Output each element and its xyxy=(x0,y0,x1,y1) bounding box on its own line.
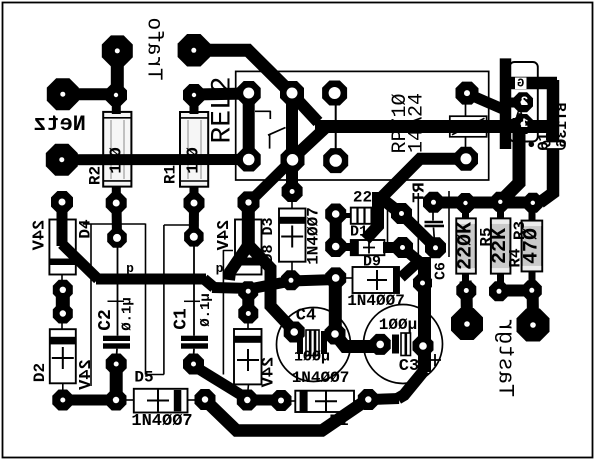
relay contact silk 1 xyxy=(255,111,270,119)
C4 stripe a xyxy=(309,330,312,356)
wire R4-R3 bottom link xyxy=(499,285,532,297)
wire R2 pad link xyxy=(112,203,123,238)
svg-text:Netz: Netz xyxy=(33,112,86,137)
wire D8 fork stem xyxy=(242,203,255,249)
svg-text:C3: C3 xyxy=(399,357,419,376)
svg-text:D1Ø: D1Ø xyxy=(350,224,377,241)
jumper silk horiz B xyxy=(164,224,193,226)
R1 cap line top xyxy=(180,117,208,119)
pad D8 top node xyxy=(238,191,260,213)
wire RT net xyxy=(381,159,467,213)
pad B D10 node xyxy=(392,237,413,258)
via C5 b xyxy=(325,236,346,257)
pad bus C4 corner xyxy=(281,270,301,290)
C1 bottom lead xyxy=(193,349,196,357)
pad D5 right xyxy=(195,389,216,410)
svg-text:14A24: 14A24 xyxy=(406,93,429,153)
D9 plus mark xyxy=(367,270,387,290)
wire via pair D7 xyxy=(242,291,254,314)
wire via pair C2 xyxy=(110,364,123,400)
wire relay pin3 to coil diag b xyxy=(292,125,329,160)
relay pin4a lead xyxy=(465,104,467,116)
C4 stripe b xyxy=(314,330,317,356)
wire pad B junction diag xyxy=(403,248,421,263)
wire D10 right to pad B xyxy=(383,242,401,253)
svg-text:R1: R1 xyxy=(162,165,180,184)
C3 stripe xyxy=(404,333,407,356)
svg-text:1N4ØØ7: 1N4ØØ7 xyxy=(305,207,323,265)
svg-text:Trafo: Trafo xyxy=(142,17,165,80)
diode D5 body xyxy=(134,389,188,413)
resistor R4 22K body cap top xyxy=(492,219,510,224)
pad Tast 2 xyxy=(517,309,550,342)
wire C4 short link xyxy=(335,334,379,347)
R1 cap line bottom xyxy=(180,180,208,182)
pad R1 bottom xyxy=(184,193,205,214)
wire bus lower xyxy=(212,280,336,289)
R4 top lead xyxy=(497,205,504,218)
pad R1 top xyxy=(183,84,205,106)
pad R4 top rail xyxy=(490,192,510,212)
pad C4 minus xyxy=(325,324,346,345)
jumper silk bottom U xyxy=(146,374,164,376)
D1 left lead xyxy=(288,400,295,402)
D5 plus mark xyxy=(147,390,169,412)
pad relay pin3a xyxy=(322,81,347,106)
pad R3 top rail xyxy=(523,193,543,213)
relay coil box xyxy=(450,116,487,137)
C2 bottom lead xyxy=(116,349,119,357)
pad A RT node xyxy=(391,203,412,224)
pad Trafo 1 xyxy=(102,35,133,66)
pad zener bus xyxy=(51,191,73,213)
D1 right lead xyxy=(354,400,361,402)
via D4 b xyxy=(53,304,73,324)
via D4 a xyxy=(53,280,73,300)
R2 cap line bottom xyxy=(103,180,131,182)
R3 top lead xyxy=(529,206,536,221)
pad D7 top xyxy=(238,304,258,324)
pad C4 plus xyxy=(284,322,305,343)
capacitor C4 outline circle xyxy=(277,308,351,382)
wire zener bus diag xyxy=(62,244,98,279)
pad C2 bottom xyxy=(106,354,127,375)
svg-text:1N4ØØ7: 1N4ØØ7 xyxy=(292,369,350,387)
wire R1 pad link xyxy=(189,203,199,237)
wire top rail xyxy=(425,197,540,209)
pad relay pin2b xyxy=(281,148,305,172)
pad C3 minus xyxy=(413,336,434,357)
R3 bottom lead xyxy=(529,271,536,285)
svg-text:R3: R3 xyxy=(511,221,529,240)
wire relay pin 1 vertical xyxy=(243,93,255,160)
resistor R5 220K body cap bottom xyxy=(457,268,475,273)
wire Netz pad 1 east xyxy=(63,88,116,100)
D2 top lead xyxy=(61,322,63,330)
jumper silk vertical C xyxy=(163,225,165,375)
silk tick C2 xyxy=(108,300,125,302)
wire bar C down xyxy=(540,80,553,203)
svg-text:22: 22 xyxy=(353,189,372,207)
C5 left stub xyxy=(342,213,351,218)
wire relay pin2 to coil diag a xyxy=(292,94,318,122)
D8 cathode band xyxy=(235,258,262,266)
wire bar A vertical xyxy=(500,58,512,149)
svg-text:R4: R4 xyxy=(507,248,525,268)
C5 right stub xyxy=(371,213,380,218)
R5 top lead xyxy=(462,206,469,218)
wire relay to D8 node diag xyxy=(249,160,292,203)
svg-text:REL2: REL2 xyxy=(207,76,238,143)
pad relay pin4a xyxy=(456,82,479,105)
wire D5 bottom route xyxy=(206,401,366,431)
D2 cathode band xyxy=(50,337,76,345)
svg-text:Q1: Q1 xyxy=(536,132,553,150)
pad D1 right xyxy=(358,389,379,410)
pad relay pin1a xyxy=(237,81,261,105)
pad D2 bottom gnd xyxy=(52,390,73,411)
wire bar A jog xyxy=(502,118,519,200)
relay coil diagonal xyxy=(452,118,485,135)
resistor R5 220K body cap top xyxy=(457,219,475,224)
R2 cap line top xyxy=(103,117,131,119)
capacitor C2 plate bottom xyxy=(103,343,130,348)
wire Trafo pad 2 down xyxy=(111,51,124,95)
wire C3 vertical xyxy=(418,257,431,372)
pad C6 top rail xyxy=(423,192,444,213)
D5 left lead xyxy=(123,399,134,401)
wire R1 top to relay pin1 xyxy=(194,94,249,95)
wire coil horizontal xyxy=(315,120,548,133)
wire pad A to C6 pad diag xyxy=(402,215,436,248)
C3 plus mark xyxy=(429,354,441,366)
D7 bottom lead xyxy=(248,384,249,395)
relay contact arm xyxy=(268,128,286,136)
relay REL2 outline xyxy=(236,71,489,180)
R4 bottom lead xyxy=(497,274,504,285)
svg-text:D8 D3: D8 D3 xyxy=(260,217,277,262)
triac Q1 outline xyxy=(510,62,538,142)
D3 top lead xyxy=(291,199,293,209)
svg-text:R5: R5 xyxy=(478,227,496,246)
relay pin4b lead xyxy=(465,137,467,148)
D1 anode band xyxy=(300,391,308,412)
wire D8 fork left xyxy=(229,244,249,280)
via R1 round xyxy=(184,227,204,247)
svg-text:Ø.1µ: Ø.1µ xyxy=(120,297,136,331)
wire R2 top stub xyxy=(112,95,121,114)
C6 bottom lead xyxy=(434,228,435,243)
D3 plus mark xyxy=(281,226,303,248)
D10 band xyxy=(351,240,359,255)
svg-text:RT: RT xyxy=(411,182,430,202)
svg-text:1N4ØØ7: 1N4ØØ7 xyxy=(347,292,405,310)
silk tick C1 xyxy=(184,300,200,302)
wire Trafo pad to relay pin xyxy=(194,50,292,93)
capacitor C1 plate top xyxy=(181,336,208,341)
capacitor C5 body xyxy=(351,208,372,224)
svg-text:R2: R2 xyxy=(87,166,105,185)
resistor R4 22K body xyxy=(491,218,511,273)
D1 plus mark xyxy=(315,390,337,412)
svg-text:p: p xyxy=(126,261,134,276)
D7 top lead xyxy=(247,322,249,330)
resistor R3 470 body cap top xyxy=(523,222,542,227)
diode D1 body xyxy=(295,391,354,412)
relay pin line xyxy=(335,99,337,152)
svg-text:C1: C1 xyxy=(172,308,192,330)
pad R5 top rail xyxy=(456,193,476,213)
D3 cathode band xyxy=(279,217,306,224)
svg-text:1N4ØØ7: 1N4ØØ7 xyxy=(131,412,192,431)
wire bar378 vertical xyxy=(366,192,379,240)
relay contact silk 2 xyxy=(269,135,271,149)
svg-text:BT136: BT136 xyxy=(554,102,571,147)
relay pin silk xyxy=(293,144,295,153)
wire Q1 pad stub 1 xyxy=(508,98,522,108)
jumper silk horiz A xyxy=(83,223,146,225)
D3 bottom lead xyxy=(291,262,293,276)
D7 plus mark xyxy=(237,349,259,371)
pad C3 link xyxy=(370,334,391,355)
D2 bottom lead xyxy=(62,383,64,394)
Q1 tab slot xyxy=(542,142,565,150)
pad D7 bottom xyxy=(237,390,258,411)
svg-text:Tastgr: Tastgr xyxy=(493,318,518,397)
svg-text:1ØØµ: 1ØØµ xyxy=(379,316,417,334)
wire R1 top stub xyxy=(190,95,199,114)
diode D10 body xyxy=(351,240,385,255)
svg-text:C4: C4 xyxy=(296,307,316,326)
pad Trafo 2 xyxy=(178,34,211,67)
D4 cathode band xyxy=(49,259,75,266)
R5 bottom lead xyxy=(462,274,469,283)
pad D3 top xyxy=(282,181,303,202)
pad relay pin2a xyxy=(280,81,304,105)
pad relay pin4b xyxy=(454,147,478,171)
D7 cathode band xyxy=(234,336,262,343)
pad D1 left xyxy=(271,390,292,411)
wire R1 body stub xyxy=(190,186,199,203)
pad R2 top xyxy=(105,84,127,106)
wire main bus horizontal xyxy=(96,274,206,285)
RT / C6 outline mid xyxy=(417,193,419,257)
R1 body streaks xyxy=(188,120,201,179)
D2 plus mark xyxy=(52,347,74,369)
svg-text:D4: D4 xyxy=(77,219,95,239)
svg-text:1ØØµ: 1ØØµ xyxy=(294,349,330,366)
wire via pair C5 xyxy=(330,214,342,247)
pad relay pin3b xyxy=(323,148,348,173)
wire R2 body stub xyxy=(112,186,121,203)
wire relay to D3 stub xyxy=(286,159,298,191)
C4 plus mark xyxy=(276,311,288,323)
wire relay pin4 to bar A xyxy=(467,94,505,111)
svg-text:D5: D5 xyxy=(134,369,153,387)
D9 cathode band xyxy=(393,267,399,293)
svg-text:D1: D1 xyxy=(329,412,348,430)
diode D9 body xyxy=(353,267,400,293)
svg-text:24V: 24V xyxy=(260,357,279,388)
wire D9 to junction diag xyxy=(401,261,419,278)
wire ground bottom left xyxy=(63,395,116,406)
pad Q1 pin a xyxy=(513,92,533,112)
diode D3 body xyxy=(279,209,306,262)
svg-text:G: G xyxy=(517,76,524,90)
resistor R4 22K body cap bottom xyxy=(492,268,510,273)
C4 plate left xyxy=(297,331,303,354)
wire D10 left stub xyxy=(337,243,351,251)
wire via pair C4 xyxy=(329,278,342,334)
svg-text:1Ø: 1Ø xyxy=(185,141,204,173)
C5 inner line 2 xyxy=(363,208,365,224)
pad C6 bottom xyxy=(425,237,446,258)
resistor R3 470 body cap bottom xyxy=(523,266,542,271)
diode D4 body xyxy=(49,220,75,275)
C6 outline right xyxy=(448,191,450,257)
wire C1 to D5 pad diag xyxy=(194,366,246,398)
pad relay pin1b xyxy=(237,148,261,172)
svg-text:C2: C2 xyxy=(96,309,116,331)
pad R3 bottom xyxy=(522,280,542,300)
wire via pair D4 xyxy=(56,290,70,314)
C6 top lead xyxy=(432,205,434,221)
D5 right lead xyxy=(188,399,198,401)
svg-text:A: A xyxy=(515,107,523,121)
svg-text:Ø.1µ: Ø.1µ xyxy=(198,293,214,327)
svg-text:24V: 24V xyxy=(31,220,50,251)
capacitor C6 plate 1 xyxy=(425,221,444,224)
svg-text:24V: 24V xyxy=(77,359,96,390)
pad Tast 1 xyxy=(451,308,483,340)
via C5 a xyxy=(325,204,346,225)
pad C1 bottom xyxy=(183,354,204,375)
diode D7 body xyxy=(234,329,262,384)
R2 body streaks xyxy=(111,120,124,179)
D10 plus mark xyxy=(363,242,375,254)
svg-text:22ØK: 22ØK xyxy=(455,222,478,270)
wire gate bar B xyxy=(505,77,557,90)
capacitor C2 plate top xyxy=(103,336,130,341)
diode D8 body xyxy=(235,220,262,275)
D5 cathode band xyxy=(174,390,182,411)
C3 plate left xyxy=(392,335,399,354)
svg-text:D9: D9 xyxy=(363,254,381,271)
svg-text:24V: 24V xyxy=(215,220,234,251)
via R2 round xyxy=(107,228,127,248)
jumper silk vertical D xyxy=(223,251,233,375)
wire D7 to D1 link xyxy=(248,395,281,406)
capacitor C3 outline circle xyxy=(364,305,443,384)
wire bus jog xyxy=(204,279,214,288)
pad R4 bottom xyxy=(489,281,509,301)
via C4 a xyxy=(325,267,346,288)
wire Q1 pad stub 2 xyxy=(508,119,522,129)
D4 bottom lead xyxy=(61,275,63,284)
wire Netz bus to relay xyxy=(62,154,249,165)
G label box xyxy=(515,78,527,90)
jumper silk vertical A xyxy=(90,224,92,387)
via C3 top xyxy=(413,274,432,293)
resistor R2 body xyxy=(103,112,131,187)
Q1 pin dot xyxy=(529,142,535,148)
pad Netz 1 xyxy=(47,78,79,110)
wire via pair R3 xyxy=(532,283,533,322)
svg-text:p: p xyxy=(216,261,224,276)
pad R5 bottom xyxy=(456,281,476,301)
C1 top lead xyxy=(193,238,195,336)
C4 plate right xyxy=(321,331,327,354)
svg-text:C6: C6 xyxy=(433,262,450,280)
pad D5 left xyxy=(106,390,127,411)
jumper silk vertical B xyxy=(145,224,147,375)
resistor R3 470 body xyxy=(522,221,543,272)
wire D8 fork right xyxy=(248,244,294,330)
RT outline left xyxy=(387,200,389,252)
resistor R1 body xyxy=(180,112,208,187)
svg-text:1Ø: 1Ø xyxy=(107,141,126,173)
pad Netz 2 xyxy=(46,144,78,176)
C3 striped plate xyxy=(401,333,411,356)
svg-text:D2: D2 xyxy=(31,363,49,382)
wire via pair R5 xyxy=(466,281,468,322)
capacitor C1 plate bottom xyxy=(181,343,208,348)
capacitor C6 plate 2 xyxy=(425,225,445,228)
D9 left lead xyxy=(343,277,353,279)
diode D2 body xyxy=(50,329,76,383)
C2 top lead xyxy=(117,239,119,336)
wire zener bus vertical xyxy=(57,202,68,246)
C4 striped plate xyxy=(306,330,319,356)
wire to D1 pad xyxy=(369,399,399,400)
wire relay pin 2 vertical xyxy=(286,93,298,159)
C5 inner line 1 xyxy=(356,208,358,224)
resistor R5 220K body xyxy=(456,218,476,273)
pad D8 bottom xyxy=(238,281,258,301)
pad R2 bottom xyxy=(106,193,127,214)
pad Q1 pin b xyxy=(513,114,533,134)
wire C3 to D1 diag xyxy=(398,370,425,399)
